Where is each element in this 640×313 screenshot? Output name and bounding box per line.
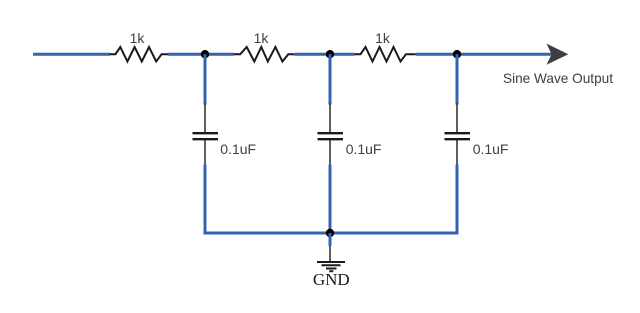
wire R2 to node B bbox=[294, 53, 330, 56]
capacitor C3 bottom lead bbox=[456, 139, 458, 165]
svg-text:GND: GND bbox=[313, 270, 350, 289]
resistor R1 bbox=[110, 47, 169, 62]
svg-text:0.1uF: 0.1uF bbox=[220, 141, 256, 157]
wire C2 down to bus bbox=[329, 165, 332, 234]
node A bbox=[201, 50, 209, 58]
svg-text:0.1uF: 0.1uF bbox=[346, 141, 382, 157]
wire node A down to C1 bbox=[204, 54, 207, 104]
arrowhead output bbox=[547, 44, 569, 65]
capacitor C1 bottom lead bbox=[204, 139, 206, 165]
wire R3 to node C bbox=[416, 53, 457, 56]
capacitor C2 plates bbox=[318, 132, 344, 134]
svg-text:Sine Wave Output: Sine Wave Output bbox=[503, 70, 613, 86]
wire C3 down to bus bbox=[456, 165, 459, 235]
svg-text:1k: 1k bbox=[254, 30, 270, 46]
wire R1 to node A bbox=[168, 53, 205, 56]
capacitor C3 top lead bbox=[456, 104, 458, 134]
wire node C to output arrow bbox=[457, 53, 552, 56]
resistor R2 bbox=[234, 47, 294, 62]
wire C1 down to bus bbox=[204, 165, 207, 235]
node B bbox=[326, 50, 334, 58]
capacitor C2 top lead bbox=[329, 104, 331, 134]
svg-text:1k: 1k bbox=[375, 30, 391, 46]
capacitor C3 plates bbox=[445, 132, 471, 134]
wire ground bus bbox=[204, 232, 459, 235]
resistor R3 bbox=[355, 47, 416, 62]
wire node B to R3 bbox=[330, 53, 355, 56]
wire input bbox=[33, 53, 110, 56]
node C bbox=[453, 50, 461, 58]
wire ground stem bbox=[329, 233, 332, 246]
svg-text:0.1uF: 0.1uF bbox=[473, 141, 509, 157]
capacitor C2 bottom lead bbox=[329, 139, 331, 165]
ground symbol bbox=[317, 246, 345, 271]
node ground junction bbox=[326, 229, 334, 237]
capacitor C1 top lead bbox=[204, 104, 206, 134]
wire node B down to C2 bbox=[329, 54, 332, 104]
wire node A to R2 bbox=[205, 53, 234, 56]
capacitor C1 plates bbox=[193, 132, 219, 134]
wire node C down to C3 bbox=[456, 54, 459, 104]
svg-text:1k: 1k bbox=[130, 30, 146, 46]
